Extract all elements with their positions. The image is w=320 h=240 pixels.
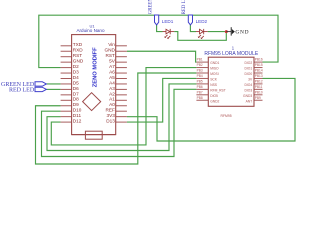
svg-text:PB7: PB7	[197, 90, 203, 94]
svg-text:LED1: LED1	[162, 19, 174, 24]
svg-text:D8: D8	[73, 97, 79, 102]
svg-text:PB1: PB1	[197, 58, 203, 62]
svg-text:A2: A2	[109, 91, 115, 96]
svg-text:REF: REF	[106, 108, 116, 113]
svg-text:A5: A5	[109, 75, 115, 80]
svg-text:PB2: PB2	[197, 63, 203, 67]
svg-text:GND: GND	[73, 59, 84, 64]
svg-text:D7: D7	[73, 91, 79, 96]
svg-text:PB11: PB11	[255, 85, 263, 89]
svg-text:MISO: MISO	[210, 67, 219, 71]
svg-text:DIO1: DIO1	[244, 67, 252, 71]
svg-text:PB8: PB8	[197, 96, 203, 100]
svg-text:D12: D12	[73, 119, 82, 124]
svg-text:PB6: PB6	[197, 85, 203, 89]
svg-text:RFM95 LORA MODULE: RFM95 LORA MODULE	[204, 51, 259, 57]
svg-text:GND2: GND2	[210, 99, 219, 103]
svg-text:A3: A3	[109, 86, 115, 91]
svg-text:DIO4: DIO4	[244, 83, 252, 87]
svg-text:PB15: PB15	[255, 63, 263, 67]
svg-text:A4: A4	[109, 80, 115, 85]
svg-text:SCK: SCK	[210, 77, 218, 81]
svg-text:PB5: PB5	[197, 80, 203, 84]
svg-text:ANT: ANT	[246, 99, 253, 103]
svg-text:D5: D5	[73, 80, 79, 85]
svg-text:PB4: PB4	[197, 74, 203, 78]
svg-text:5V: 5V	[109, 59, 116, 64]
svg-text:RED LED: RED LED	[9, 87, 35, 93]
svg-text:DIO2: DIO2	[244, 61, 252, 65]
svg-text:MOSI: MOSI	[210, 72, 219, 76]
svg-text:DIO3: DIO3	[244, 88, 252, 92]
svg-text:PB12: PB12	[255, 80, 263, 84]
svg-text:Arduino Nano: Arduino Nano	[76, 28, 105, 33]
svg-text:PB13: PB13	[255, 74, 263, 78]
svg-text:3V3: 3V3	[107, 113, 116, 118]
svg-text:PB10: PB10	[255, 90, 263, 94]
svg-text:TXD: TXD	[73, 42, 83, 47]
svg-text:LED2: LED2	[196, 19, 208, 24]
svg-text:GND: GND	[235, 29, 249, 35]
svg-text:GREEN LED: GREEN LED	[149, 0, 154, 14]
svg-text:D11: D11	[73, 113, 82, 118]
svg-text:A1: A1	[109, 97, 115, 102]
svg-text:GND: GND	[104, 48, 115, 53]
svg-text:D10: D10	[73, 108, 82, 113]
svg-text:RED LED: RED LED	[182, 0, 187, 14]
svg-text:D13: D13	[106, 119, 115, 124]
svg-text:RST: RST	[73, 53, 83, 58]
svg-text:RST: RST	[106, 53, 116, 58]
svg-text:D4: D4	[73, 75, 79, 80]
svg-text:PB14: PB14	[255, 69, 263, 73]
svg-text:DIO0: DIO0	[244, 72, 252, 76]
svg-text:PB16: PB16	[255, 58, 263, 62]
svg-text:D9: D9	[73, 102, 79, 107]
svg-text:DIO5: DIO5	[210, 94, 218, 98]
svg-text:RFM95: RFM95	[221, 114, 232, 118]
svg-text:GND1: GND1	[210, 61, 219, 65]
svg-text:Vin: Vin	[108, 42, 115, 47]
svg-text:A7: A7	[109, 64, 115, 69]
svg-text:NSS: NSS	[210, 83, 218, 87]
svg-text:D3: D3	[73, 69, 79, 74]
svg-text:ZENO MODIFF: ZENO MODIFF	[93, 47, 99, 87]
svg-text:RXD: RXD	[73, 48, 84, 53]
svg-text:PB3: PB3	[197, 69, 203, 73]
svg-text:A6: A6	[109, 69, 115, 74]
svg-text:A0: A0	[109, 102, 115, 107]
svg-text:PB9: PB9	[255, 96, 261, 100]
svg-text:D6: D6	[73, 86, 79, 91]
svg-text:D2: D2	[73, 64, 79, 69]
svg-text:GND3: GND3	[243, 94, 252, 98]
svg-text:RFM_RST: RFM_RST	[210, 88, 226, 92]
